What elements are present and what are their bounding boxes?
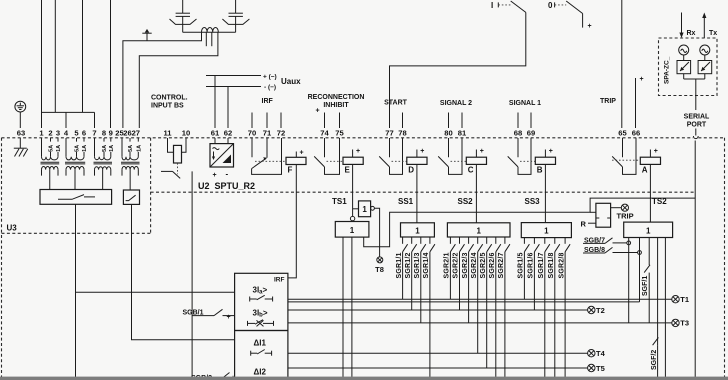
inductor choke coil (202, 27, 219, 32)
SS1 OR box (401, 223, 435, 237)
trip latch flip-flop (596, 203, 611, 227)
svg-text:5A: 5A (128, 145, 134, 152)
wire small OR output to T8 (374, 208, 379, 257)
svg-text:75: 75 (335, 129, 344, 138)
svg-text:68: 68 (514, 129, 522, 138)
bus T4 (288, 352, 588, 354)
svg-text:SGR2/1: SGR2/1 (444, 252, 451, 278)
SGR1/5 switch line (518, 238, 530, 300)
SGR1/7 switch line (538, 238, 550, 380)
svg-text:6: 6 (82, 129, 86, 138)
SGR2/3 switch line (462, 237, 474, 323)
svg-text:U2 SPTU_R2: U2 SPTU_R2 (198, 181, 255, 191)
wire TRIP to terminal 65 from top (621, 0, 623, 128)
serial port wire (684, 74, 705, 110)
TS2 OR box (624, 222, 673, 237)
svg-text:- (−): - (−) (264, 84, 276, 91)
SPA-ZC right transceiver circle (700, 45, 710, 55)
output relay F changeover contact (252, 138, 282, 174)
SPA-ZC left opto square (677, 55, 691, 74)
svg-text:T4: T4 (596, 349, 606, 358)
SGR2/7 switch line (498, 237, 510, 380)
svg-text:SGR2/5: SGR2/5 (480, 252, 487, 278)
svg-text:SGR2/6: SGR2/6 (489, 252, 496, 278)
measuring block upper section (235, 273, 288, 330)
wire E coil to TS1 (352, 164, 354, 216)
wire E to TS1 box (352, 220, 354, 223)
svg-text:70: 70 (248, 129, 256, 138)
svg-text:SGR2/8: SGR2/8 (558, 252, 565, 278)
wire terminal 61 (214, 76, 216, 129)
input transformer group 3 terminals 7-8-9 (94, 138, 115, 190)
svg-text:1: 1 (362, 205, 367, 214)
svg-text:RECONNECTION: RECONNECTION (308, 94, 365, 101)
svg-text:T3: T3 (680, 319, 689, 328)
relay case dashed boundary right (724, 138, 726, 380)
svg-text:I: I (491, 1, 493, 10)
bottom crop bar (0, 377, 728, 380)
Rx arrow (679, 13, 695, 39)
svg-text:SS2: SS2 (458, 197, 474, 206)
wire BS output down (191, 171, 193, 380)
svg-text:SGF/2: SGF/2 (651, 350, 658, 370)
svg-text:SGR1/2: SGR1/2 (405, 252, 412, 278)
TRIP indicator output (611, 204, 634, 220)
TS2 output line 2 to T1b (639, 238, 641, 302)
input transformer group 1 terminals 1-2-3 (41, 138, 63, 190)
bus T5 (288, 367, 588, 369)
SGR2/1 switch line (444, 237, 456, 299)
svg-text:T2: T2 (596, 306, 605, 315)
Uaux plus line (206, 75, 261, 77)
SGB/1 switch wire (183, 309, 235, 321)
svg-text:11: 11 (163, 129, 172, 138)
svg-text:SGR1/1: SGR1/1 (396, 252, 403, 278)
SGR2/6 switch line (489, 237, 501, 380)
U3 module dashed box bottom edge (2, 232, 151, 234)
svg-text:1A: 1A (136, 145, 142, 152)
svg-text:SGR1/6: SGR1/6 (528, 252, 535, 278)
svg-text:27: 27 (132, 129, 140, 138)
svg-text:66: 66 (632, 129, 640, 138)
wire terminal 78 stub (402, 113, 404, 129)
svg-text:T5: T5 (596, 364, 605, 373)
svg-text:INHIBIT: INHIBIT (323, 102, 349, 109)
wire terminal 66 (635, 78, 637, 128)
control input BS resistor (168, 138, 187, 163)
wire terminal 75 stub (339, 113, 341, 129)
svg-text:A: A (642, 166, 648, 175)
signal output T5 (588, 364, 605, 373)
wire CT common bus (42, 111, 95, 113)
svg-text:1: 1 (646, 226, 651, 235)
SS2 OR box (447, 223, 510, 237)
svg-text:5A: 5A (75, 145, 81, 152)
output relay A trip contact (612, 138, 636, 174)
SPA-ZC serial module dashed box (659, 38, 718, 96)
BS mechanical link (177, 163, 179, 174)
svg-text:+: + (549, 148, 553, 155)
svg-text:1: 1 (350, 226, 355, 235)
svg-text:26: 26 (123, 129, 131, 138)
svg-text:SPA-ZC_: SPA-ZC_ (664, 56, 671, 84)
svg-text:SS3: SS3 (525, 197, 541, 206)
relay B link (520, 160, 535, 162)
svg-text:ΔI1: ΔI1 (254, 339, 267, 348)
surge arrester left (170, 19, 197, 24)
svg-text:B: B (537, 166, 543, 175)
svg-text:1: 1 (544, 227, 549, 236)
svg-text:69: 69 (527, 129, 535, 138)
svg-text:+: + (356, 148, 360, 155)
surge arrester right (222, 19, 249, 24)
SGR1/6 switch line (528, 238, 540, 310)
svg-text:80: 80 (444, 129, 452, 138)
svg-text:3: 3 (56, 129, 60, 138)
bus T3 (288, 322, 672, 324)
output relay E contact (314, 138, 339, 174)
output relay C contact (438, 138, 462, 174)
TS2 output line 1 to T3 (628, 238, 630, 323)
svg-text:81: 81 (458, 129, 467, 138)
svg-text:1A: 1A (82, 145, 88, 152)
phase measuring unit box (40, 190, 112, 205)
svg-text:T8: T8 (375, 265, 384, 274)
relay A coil (640, 148, 660, 175)
relay case dashed boundary left (1, 138, 3, 380)
svg-text:7: 7 (92, 129, 96, 138)
svg-text:ΔI2: ΔI2 (254, 368, 267, 377)
wire serial line down right side (694, 141, 696, 380)
svg-text:9: 9 (109, 129, 113, 138)
svg-text:Rx: Rx (687, 30, 696, 37)
svg-text:CONTROL.: CONTROL. (151, 95, 188, 102)
output relay B contact (508, 138, 531, 174)
shield earth symbol on wire (142, 29, 151, 41)
svg-text:74: 74 (320, 129, 329, 138)
signal output T4 (588, 349, 606, 358)
TS1 output wires down (343, 237, 352, 380)
svg-text:E: E (345, 166, 351, 175)
wire terminal 68 stub (517, 113, 519, 129)
relay F coil (286, 150, 306, 175)
serial port connector stub and hook (693, 129, 698, 139)
SGR1/3 switch line (414, 237, 426, 323)
svg-text:61: 61 (211, 129, 220, 138)
SPA-ZC left transceiver circle (679, 45, 689, 55)
svg-text:INPUT BS: INPUT BS (151, 103, 184, 110)
SGF/2 switch line (651, 238, 659, 380)
inner dashed boundary between IO and logic (151, 191, 696, 193)
svg-text:U3: U3 (7, 224, 18, 233)
svg-text:SGR2/7: SGR2/7 (498, 252, 505, 278)
svg-text:1: 1 (415, 226, 420, 235)
svg-text:78: 78 (398, 129, 406, 138)
SGR2/4 switch line (471, 237, 483, 353)
SGF/1 switch line (642, 238, 650, 323)
relay D coil (407, 148, 427, 175)
TS2 output line 5 (664, 238, 666, 380)
TS1 OR box (335, 222, 369, 238)
relay A link (612, 159, 640, 161)
choke lower winding taps (206, 32, 212, 46)
wire terminal 81 stub (461, 113, 463, 129)
SGB/7 switch wire (583, 237, 631, 245)
svg-text:+: + (213, 172, 217, 179)
wire terminal 62 (227, 87, 229, 129)
input transformer group 4 terminals 25-26-27 (121, 138, 142, 190)
svg-text:+: + (227, 314, 231, 321)
svg-text:T1: T1 (680, 295, 689, 304)
terminal numbers row (17, 129, 640, 138)
svg-text:SGF/1: SGF/1 (642, 276, 649, 296)
wire CT phase L1 from top (41, 0, 43, 128)
svg-text:+ (−): + (−) (263, 74, 277, 81)
signal output T2 (588, 306, 605, 315)
label R and reset wire (581, 219, 596, 228)
wire CT return 1 from top (54, 0, 56, 112)
bus T1b second line (288, 301, 640, 303)
TS1 small OR gate (353, 201, 375, 217)
Uaux minus line (206, 86, 261, 88)
bus T1 (288, 298, 672, 300)
svg-text:63: 63 (17, 129, 25, 138)
pushbutton I (491, 1, 526, 12)
svg-text:D: D (408, 166, 414, 175)
chassis ground inside case for terminal 63 (14, 138, 28, 157)
SGR1/4 switch line (423, 237, 435, 380)
pushbutton 0 (548, 1, 592, 30)
BS switch contact (161, 171, 180, 178)
wire terminal 72 stub (280, 113, 282, 129)
relay E coil (343, 148, 363, 175)
relay C coil (466, 148, 486, 175)
wire F coil to IRF input (288, 165, 296, 278)
svg-text:2: 2 (48, 129, 52, 138)
svg-text:SGR1/8: SGR1/8 (548, 252, 555, 278)
SGR2/5 switch line (480, 237, 492, 368)
signal output T3 (672, 319, 689, 328)
svg-text:71: 71 (263, 129, 272, 138)
relay case dashed boundary top (2, 137, 694, 139)
wire phase unit output down (75, 204, 77, 380)
svg-text:SS1: SS1 (398, 197, 414, 206)
SGR1/2 switch line (405, 237, 417, 310)
bus T2 (288, 309, 588, 311)
SGR2/8 switch line (558, 238, 570, 380)
wire earth-fault unit output down (132, 204, 235, 339)
measuring block lower section (235, 331, 288, 380)
svg-text:+: + (640, 76, 644, 83)
SPA-ZC right opto square (698, 55, 712, 74)
capacitor right of Io filter (229, 0, 243, 32)
svg-text:SGR2/3: SGR2/3 (462, 252, 469, 278)
relay D link (392, 160, 407, 162)
svg-text:R: R (581, 219, 587, 228)
capacitor left of Io filter (176, 0, 190, 32)
svg-text:SERIAL: SERIAL (684, 114, 710, 121)
wire coil left end to terminal 25 (123, 32, 202, 128)
svg-text:+: + (300, 150, 304, 157)
ground electrode symbol terminal 63 (15, 101, 26, 128)
svg-text:62: 62 (224, 129, 232, 138)
svg-text:IRF: IRF (274, 277, 285, 284)
svg-text:C: C (468, 166, 474, 175)
svg-text:PORT: PORT (687, 122, 707, 129)
svg-text:Uaux: Uaux (281, 77, 301, 86)
wire CT return 2 from top (82, 0, 84, 112)
SGR1/8 switch line (548, 238, 560, 380)
wire B coil to SS3 (544, 164, 546, 222)
signal output T1 (672, 295, 689, 304)
svg-text:SGR2/2: SGR2/2 (453, 252, 460, 278)
Tx arrow (702, 13, 717, 39)
SGB/2 switch wire clipped at bottom (191, 373, 235, 380)
svg-text:SGR1/7: SGR1/7 (538, 252, 545, 278)
svg-text:SIGNAL 2: SIGNAL 2 (440, 100, 472, 107)
svg-text:10: 10 (182, 129, 190, 138)
wire latch set input (590, 211, 596, 213)
svg-text:SGR2/4: SGR2/4 (471, 252, 478, 278)
svg-text:1: 1 (476, 226, 481, 235)
svg-text:SGR1/4: SGR1/4 (423, 252, 430, 278)
wire terminal 69 stub (530, 113, 532, 129)
svg-text:TS1: TS1 (332, 197, 347, 206)
wire drop to terminal 7 (94, 112, 96, 128)
svg-text:1A: 1A (109, 145, 115, 152)
svg-text:SIGNAL 1: SIGNAL 1 (509, 100, 541, 107)
svg-text:TS2: TS2 (652, 197, 667, 206)
U3 module dashed box right edge (150, 138, 152, 234)
wire TS1 to trip latch (364, 198, 696, 247)
3Ia contact symbol (250, 295, 273, 301)
svg-text:-: - (226, 170, 229, 179)
wire terminal 80 stub (448, 113, 450, 129)
input transformer group 2 terminals 4-5-6 (65, 138, 88, 190)
wire D coil to SS1 (416, 164, 418, 222)
output relay D contact (379, 138, 402, 174)
wire drop to terminal 4 (65, 112, 67, 128)
signal output T8 (375, 257, 384, 274)
3Ib contact symbol with cross (248, 320, 274, 327)
svg-text:+: + (654, 148, 658, 155)
svg-text:65: 65 (618, 129, 627, 138)
relay E link (327, 160, 344, 162)
wire I button to terminal 77 (390, 12, 526, 128)
svg-text:+: + (588, 23, 592, 30)
wire A coil to TS2 (649, 164, 651, 222)
svg-text:77: 77 (385, 129, 393, 138)
SS3 OR box (521, 223, 571, 238)
svg-text:0: 0 (548, 1, 553, 10)
svg-text:+: + (420, 148, 424, 155)
svg-text:Tx: Tx (709, 30, 717, 37)
svg-text:5A: 5A (49, 145, 55, 152)
svg-text:72: 72 (277, 129, 285, 138)
svg-text:+: + (316, 108, 320, 115)
svg-text:+: + (480, 148, 484, 155)
wire C coil to SS2 (475, 164, 477, 222)
TS1 inverter bubble on E wire (350, 216, 354, 220)
svg-text:F: F (288, 166, 293, 175)
wire terminal 71 stub (266, 113, 268, 129)
svg-text:IRF: IRF (262, 98, 274, 105)
SGB/8 switch wire (583, 247, 641, 255)
delta I1 contact symbol (251, 350, 272, 356)
wire CT phase L3b from top to terminal 9 (110, 0, 112, 128)
wire Io filter bus (183, 31, 236, 33)
SPTU power supply unit (210, 138, 234, 179)
svg-text:TRIP: TRIP (617, 212, 634, 221)
relay F link (255, 160, 286, 162)
svg-text:5A: 5A (102, 145, 108, 152)
wire coil right tap to terminal 27 (139, 32, 218, 128)
earth-fault measuring unit box (123, 190, 139, 204)
svg-text:SGR1/5: SGR1/5 (518, 252, 525, 278)
SGR1/1 switch line (396, 237, 408, 299)
wire phase unit to measuring block input (76, 291, 235, 293)
svg-text:1A: 1A (56, 145, 62, 152)
relay C link (451, 160, 467, 162)
wire terminal 74 stub (324, 113, 326, 129)
svg-text:SGR1/3: SGR1/3 (414, 252, 421, 278)
svg-text:8: 8 (102, 129, 106, 138)
SGR2/2 switch line (453, 237, 465, 310)
svg-text:START: START (384, 100, 408, 107)
svg-text:TRIP: TRIP (600, 98, 616, 105)
wire terminal 70 stub (251, 113, 253, 129)
relay B coil (535, 148, 555, 175)
